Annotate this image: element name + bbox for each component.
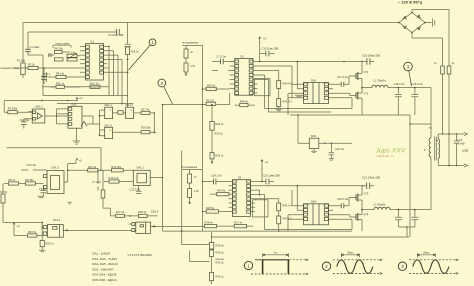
svg-text:DA1 - LM324: DA1 - LM324 <box>92 252 110 256</box>
svg-text:C14 1.5н: C14 1.5н <box>211 173 222 177</box>
svg-text:VT3: VT3 <box>364 192 369 196</box>
svg-text:DA2: DA2 <box>72 102 78 106</box>
svg-text:DD1.2: DD1.2 <box>126 103 134 107</box>
svg-text:C4 0.5м: C4 0.5м <box>20 118 30 122</box>
svg-text:VD1-VD4 - КД208: VD1-VD4 - КД208 <box>92 273 116 277</box>
svg-text:R32 1к: R32 1к <box>216 275 225 279</box>
svg-text:R2 2к: R2 2к <box>28 62 35 66</box>
svg-text:R18 56к: R18 56к <box>141 126 151 130</box>
svg-text:R4 10к: R4 10к <box>56 71 65 75</box>
svg-text:опторазвязка: опторазвязка <box>181 166 198 169</box>
svg-text:R24 1к: R24 1к <box>215 154 224 158</box>
svg-text:C7 0.1м: C7 0.1м <box>216 55 226 59</box>
svg-text:20мс: 20мс <box>423 250 430 254</box>
svg-text:C10 10мк 25В: C10 10мк 25В <box>262 46 279 50</box>
svg-text:VT4: VT4 <box>364 213 369 217</box>
svg-text:R11 1к: R11 1к <box>56 81 65 85</box>
svg-text:C3 10мк 16В: C3 10мк 16В <box>108 33 123 37</box>
svg-text:+U: +U <box>17 224 21 228</box>
svg-text:R17 4к: R17 4к <box>141 107 150 111</box>
svg-text:DD1 - K561ЛА7: DD1 - K561ЛА7 <box>92 267 114 271</box>
svg-text:R43 4.3: R43 4.3 <box>283 216 293 220</box>
svg-text:VT2: VT2 <box>364 92 369 96</box>
svg-text:C16 100мк 25В: C16 100мк 25В <box>362 54 380 58</box>
svg-text:C21 100мк 25В: C21 100мк 25В <box>362 175 380 179</box>
svg-text:D1: D1 <box>91 39 95 43</box>
svg-text:R23 1к: R23 1к <box>215 132 224 136</box>
svg-text:R17 4к: R17 4к <box>116 210 125 214</box>
svg-text:R42 4.3: R42 4.3 <box>283 203 293 207</box>
svg-text:D2: D2 <box>241 54 245 58</box>
svg-text:входной сигнал: входной сигнал <box>1 66 20 70</box>
svg-text:R1 56к: R1 56к <box>17 59 26 63</box>
svg-text:подстройка: подстройка <box>56 41 70 45</box>
svg-text:DA4, DA5 - IR2110: DA4, DA5 - IR2110 <box>92 262 118 266</box>
svg-text:+U: +U <box>263 36 267 40</box>
svg-text:R24 5к: R24 5к <box>217 189 226 193</box>
svg-text:R26 4к: R26 4к <box>205 221 214 225</box>
svg-text:C20 1м: C20 1м <box>335 147 344 151</box>
svg-text:DA1.4: DA1.4 <box>53 218 61 222</box>
svg-text:C18 0.7м: C18 0.7м <box>394 82 405 86</box>
svg-text:+U: +U <box>79 96 83 100</box>
svg-text:R20 5к: R20 5к <box>207 83 216 87</box>
svg-text:L2 70мкГн: L2 70мкГн <box>374 202 387 206</box>
svg-text:D3: D3 <box>238 176 242 180</box>
svg-text:DA3: DA3 <box>311 78 317 82</box>
svg-text:C15 10мк 25В: C15 10мк 25В <box>263 173 280 177</box>
svg-text:R21 5к: R21 5к <box>206 98 215 102</box>
svg-text:R6 10к: R6 10к <box>55 47 64 51</box>
svg-text:DD1.4: DD1.4 <box>151 209 159 213</box>
svg-text:R41 4.3: R41 4.3 <box>283 100 293 104</box>
svg-text:R14 56к: R14 56к <box>112 165 122 169</box>
svg-text:C2 0.1: C2 0.1 <box>43 72 51 76</box>
svg-text:опторазвязка: опторазвязка <box>182 41 199 44</box>
svg-text:+U: +U <box>265 160 269 164</box>
svg-text:VT1: VT1 <box>364 70 369 74</box>
svg-text:R27 4к: R27 4к <box>234 221 243 225</box>
svg-text:C19 0.7м: C19 0.7м <box>412 82 423 86</box>
svg-text:R12 10: R12 10 <box>90 81 99 85</box>
svg-text:DD1.3: DD1.3 <box>105 123 113 127</box>
svg-text:R19 5к: R19 5к <box>28 230 37 234</box>
svg-text:3: 3 <box>407 64 410 69</box>
svg-text:20мс: 20мс <box>347 250 354 254</box>
svg-text:L1 70мкГн: L1 70мкГн <box>374 79 387 83</box>
svg-text:2: 2 <box>161 81 164 86</box>
svg-text:R48 4к: R48 4к <box>240 100 249 104</box>
svg-text:R22 1к: R22 1к <box>215 122 224 126</box>
svg-text:C22 0.1м: C22 0.1м <box>337 197 348 201</box>
svg-text:VT1-VT4 IRF3205: VT1-VT4 IRF3205 <box>127 253 152 257</box>
svg-text:C17 0.1м: C17 0.1м <box>337 75 348 79</box>
svg-text:R9 56к: R9 56к <box>25 178 34 182</box>
svg-text:~ 220 В 50Гц: ~ 220 В 50Гц <box>398 1 423 5</box>
svg-text:R7 10к: R7 10к <box>67 50 76 54</box>
svg-text:R3 560к: R3 560к <box>8 107 18 111</box>
svg-text:C7 4.7н: C7 4.7н <box>92 180 102 184</box>
svg-text:C6 1н: C6 1н <box>39 187 46 191</box>
svg-text:R31 1к: R31 1к <box>216 260 225 264</box>
svg-text:DA1.1: DA1.1 <box>36 105 44 109</box>
svg-text:DA1.2: DA1.2 <box>137 166 145 170</box>
svg-text:C13 5.6н: C13 5.6н <box>130 187 141 191</box>
svg-text:DD1.1: DD1.1 <box>105 103 113 107</box>
svg-text:DA2, DA3 - TL494: DA2, DA3 - TL494 <box>92 257 117 261</box>
svg-text:R25 5к: R25 5к <box>206 206 215 210</box>
svg-text:DA5: DA5 <box>311 134 317 138</box>
svg-text:C1 10мк: C1 10мк <box>30 45 41 49</box>
svg-text:R13 4.7к: R13 4.7к <box>109 176 120 180</box>
svg-text:DA4: DA4 <box>311 200 317 204</box>
svg-text:R18 2к: R18 2к <box>138 210 147 214</box>
svg-text:R10 4к: R10 4к <box>88 165 97 169</box>
svg-text:R28 4к: R28 4к <box>216 244 225 248</box>
svg-text:1: 1 <box>151 40 154 45</box>
svg-text:C5 0.5м: C5 0.5м <box>27 163 37 167</box>
svg-text:R20 1к: R20 1к <box>46 242 55 246</box>
svg-text:R30 1к: R30 1к <box>216 250 225 254</box>
svg-text:R7 5к: R7 5к <box>1 190 8 194</box>
svg-text:+U: +U <box>79 159 83 163</box>
svg-text:1.7нФ: 1.7нФ <box>458 142 465 146</box>
svg-text:±22В: ±22В <box>462 148 468 152</box>
svg-text:VD5-VD8 - КД213: VD5-VD8 - КД213 <box>92 278 116 282</box>
svg-text:R8 1к: R8 1к <box>8 178 15 182</box>
svg-text:radiolab.ru: radiolab.ru <box>377 154 395 158</box>
svg-text:DA1.3: DA1.3 <box>52 166 60 170</box>
svg-text:R40 4.3: R40 4.3 <box>283 82 293 86</box>
svg-text:R16 1к: R16 1к <box>131 49 140 53</box>
svg-text:Jups XXV: Jups XXV <box>375 147 407 154</box>
